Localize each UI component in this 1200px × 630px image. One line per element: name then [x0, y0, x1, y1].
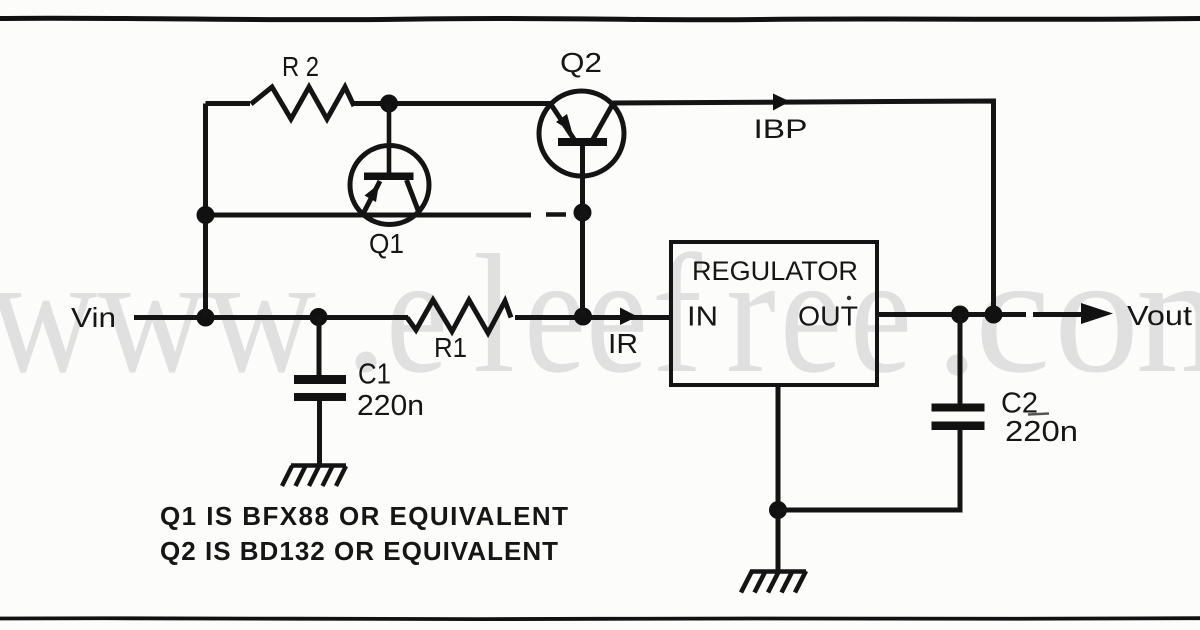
svg-text:IBP: IBP: [754, 114, 808, 144]
arrow IBP: [773, 94, 790, 111]
capacitor C1 lead top: [317, 317, 322, 375]
svg-text:e: e: [586, 220, 648, 408]
svg-text:220n: 220n: [1005, 416, 1078, 448]
node R2/Q1 base: [380, 95, 398, 113]
node Q2 collector tap: [574, 308, 592, 326]
wire Q1 row: [206, 213, 532, 218]
ground C2: [741, 571, 806, 593]
watermark period 2: [947, 355, 968, 376]
transistor Q1: [350, 146, 429, 225]
node ground junction: [769, 501, 787, 519]
node main-left: [197, 309, 215, 327]
wire main input: [134, 315, 408, 320]
Q1 collector: [407, 180, 420, 214]
node right corner: [985, 306, 1003, 324]
capacitor C2 lead top: [958, 315, 963, 404]
svg-text:220n: 220n: [357, 390, 424, 422]
wire R1 to regulator: [515, 315, 671, 320]
node C2 tap: [951, 306, 969, 324]
node C1 tap: [310, 308, 328, 326]
bottom border rule: [0, 616, 1200, 621]
svg-text:R 2: R 2: [282, 51, 319, 82]
Q1 base bar: [364, 173, 414, 181]
arrow Vout: [1081, 303, 1113, 324]
C1 plate top: [294, 375, 346, 384]
watermark period 1: [356, 352, 377, 373]
node Q1 row left: [197, 206, 215, 224]
svg-text:www: www: [0, 220, 316, 408]
C1 plate bottom: [294, 393, 346, 401]
wire Q2 base vertical: [580, 146, 585, 318]
svg-text:r: r: [726, 220, 776, 408]
transistor Q2: [539, 91, 624, 176]
C2 plate top: [932, 404, 985, 412]
wire top-left to R2: [206, 101, 251, 106]
svg-text:Q2 IS BD132 OR EQUIVALENT: Q2 IS BD132 OR EQUIVALENT: [160, 536, 558, 566]
wire C2 bottom to ground junction: [778, 430, 960, 511]
regulator ground pin: [776, 385, 781, 510]
wire Q1 base lead: [387, 104, 392, 174]
Q2 emitter arrow: [556, 114, 572, 132]
svg-text:Q2: Q2: [560, 47, 602, 78]
svg-text:Q1: Q1: [369, 228, 404, 259]
wire OUT to arrow: [877, 312, 1082, 317]
svg-text:Vin: Vin: [71, 302, 116, 333]
svg-text:Q1 IS BFX88 OR EQUIVALENT: Q1 IS BFX88 OR EQUIVALENT: [160, 501, 568, 531]
wire R2 to Q2: [353, 101, 551, 106]
ground C2 stem: [776, 510, 781, 571]
resistor R1: [407, 300, 511, 333]
wire left vertical: [203, 104, 208, 318]
stray mark under C2: [1028, 414, 1049, 415]
C2 plate bottom: [932, 422, 985, 431]
Q2 collector: [593, 105, 613, 141]
regulator box U1: [671, 242, 877, 385]
svg-text:IN: IN: [687, 301, 718, 332]
svg-text:Vout: Vout: [1127, 300, 1192, 331]
resistor R2: [251, 87, 354, 119]
wire dash segment: [546, 212, 566, 217]
arrow IR: [620, 308, 638, 326]
wire Q2 to right corner: [613, 101, 994, 315]
capacitor C1 lead bottom: [317, 401, 322, 466]
Q1 emitter: [363, 181, 380, 214]
svg-text:REGULATOR: REGULATOR: [692, 256, 858, 286]
Q1 emitter arrow: [365, 184, 380, 202]
node Q2 base: [574, 204, 592, 222]
svg-text:OUT: OUT: [798, 301, 858, 332]
top border rule: [0, 18, 1200, 20]
Q2 base bar: [558, 138, 607, 146]
Q2 emitter: [551, 105, 575, 141]
svg-text:C1: C1: [358, 359, 391, 391]
speck above OUT T: [847, 296, 851, 300]
svg-text:R1: R1: [434, 332, 467, 363]
svg-text:IR: IR: [608, 328, 638, 359]
ground C1: [282, 466, 346, 487]
